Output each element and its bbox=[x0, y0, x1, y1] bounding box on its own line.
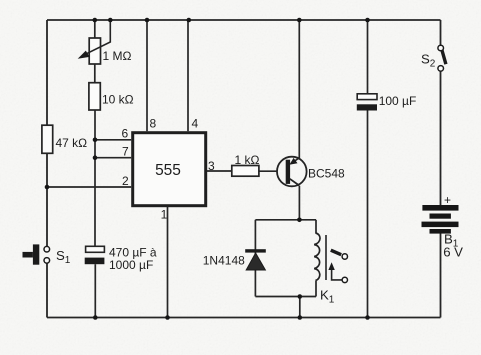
label: BC548 bbox=[308, 167, 345, 181]
label: K1 bbox=[320, 288, 335, 306]
label: S1 bbox=[56, 248, 71, 266]
wire: pin 3 (IC to 1k) bbox=[207, 170, 232, 172]
wire: transistor collector to top rail bbox=[298, 20, 300, 158]
node: junction 100uF bottom rail bbox=[365, 315, 370, 320]
wire: relay loop top bbox=[255, 219, 316, 221]
node: junction emitter relay top bbox=[297, 218, 302, 223]
potentiometer P1 body bbox=[89, 38, 100, 64]
label: pin 8 bbox=[149, 117, 156, 131]
svg-text:8: 8 bbox=[149, 117, 156, 131]
label: B1 bbox=[444, 232, 459, 250]
wire: bottom 0V rail bbox=[47, 317, 441, 319]
relay K1 coil bbox=[314, 233, 320, 281]
label: pin 7 bbox=[122, 145, 129, 159]
switch S1 (pushbutton contacts) bbox=[44, 246, 50, 263]
wire: relay bottom to 0V rail bbox=[299, 297, 301, 318]
label: pin 6 bbox=[121, 127, 128, 141]
node: junction pin6 bbox=[93, 138, 98, 143]
label: S2 bbox=[421, 52, 436, 70]
resistor R2 10 kΩ body bbox=[89, 83, 100, 110]
node: junction collector top bbox=[297, 18, 302, 23]
node: junction pin7 bbox=[93, 155, 98, 160]
wire: relay coil branch top bbox=[315, 220, 317, 233]
relay K1 contact (fixed circle with actuation arrow) bbox=[328, 262, 347, 282]
wire: left rail (upper segment to 47k) bbox=[46, 20, 48, 125]
battery B1 plates bbox=[422, 205, 459, 234]
svg-text:47 kΩ: 47 kΩ bbox=[56, 136, 88, 150]
node: junction relay bottom bbox=[298, 294, 303, 299]
wire: right rail top (to S2) bbox=[440, 20, 442, 46]
node: junction wiper top bbox=[108, 18, 113, 23]
wire: top +V rail bbox=[47, 19, 441, 21]
wire: left rail (S1 to bottom rail) bbox=[46, 263, 48, 318]
svg-text:555: 555 bbox=[155, 162, 181, 179]
svg-text:1 kΩ: 1 kΩ bbox=[235, 153, 260, 167]
label: 6 V bbox=[443, 245, 463, 260]
node: junction relay bottom rail bbox=[298, 315, 303, 320]
wire: relay coil branch bottom bbox=[315, 281, 317, 297]
capacitor C2 100 µF bbox=[357, 94, 377, 111]
label: pin 3 bbox=[208, 159, 215, 173]
label: 47 kΩ bbox=[56, 136, 88, 150]
transistor Q1 BC548 bbox=[277, 157, 307, 187]
wire: transistor emitter to relay bbox=[298, 186, 300, 220]
node: junction pin2 left rail bbox=[45, 185, 50, 190]
capacitor C1 470 µF bbox=[85, 246, 105, 264]
label: 1 MΩ bbox=[103, 49, 132, 63]
wire: relay loop bottom bbox=[255, 296, 316, 298]
wire: potentiometer to 10k bbox=[94, 64, 96, 83]
svg-text:6 V: 6 V bbox=[443, 245, 463, 260]
svg-text:1000 µF: 1000 µF bbox=[109, 258, 153, 272]
resistor R1 47 kΩ body bbox=[42, 125, 53, 153]
wire: pin 2 (from left rail to IC) bbox=[47, 186, 131, 188]
svg-text:1: 1 bbox=[161, 208, 168, 222]
svg-text:1N4148: 1N4148 bbox=[203, 253, 245, 267]
label: 100 µF bbox=[379, 94, 417, 108]
svg-text:4: 4 bbox=[191, 117, 198, 131]
node: junction 100uF top bbox=[365, 18, 370, 23]
label: pin 4 bbox=[191, 117, 198, 131]
svg-text:3: 3 bbox=[208, 159, 215, 173]
label: 10 kΩ bbox=[102, 93, 134, 107]
label: pin 1 bbox=[161, 208, 168, 222]
svg-text:2: 2 bbox=[122, 174, 129, 188]
wire: relay loop left (diode branch) bbox=[254, 220, 256, 297]
resistor R3 1 kΩ body bbox=[232, 166, 259, 177]
label: pin 2 bbox=[122, 174, 129, 188]
label: 470 µF à bbox=[109, 245, 157, 259]
node: junction pin1 bottom rail bbox=[165, 315, 170, 320]
wire: 100uF to bottom rail bbox=[367, 111, 369, 318]
svg-text:+: + bbox=[444, 193, 451, 207]
label: 1000 µF bbox=[109, 258, 153, 272]
label: + (battery positive) bbox=[444, 193, 451, 207]
wire: 1k to transistor base bbox=[259, 170, 277, 172]
IC U1 555 body bbox=[133, 133, 206, 206]
node: junction pin8 top bbox=[145, 18, 150, 23]
switch S2 bbox=[438, 45, 446, 71]
wire: 470uF to bottom rail bbox=[94, 264, 96, 317]
relay K1 contact (moving blade and circle) bbox=[331, 250, 348, 259]
node: junction 470uF bottom rail bbox=[93, 315, 98, 320]
node: junction pin4 top bbox=[187, 18, 192, 23]
node: junction pot top bbox=[93, 18, 98, 23]
wire: middle rail top (rail to potentiometer) bbox=[94, 20, 96, 38]
diode D1 1N4148 bbox=[245, 249, 266, 270]
svg-text:1 MΩ: 1 MΩ bbox=[103, 49, 132, 63]
wire: pin 6 bbox=[95, 139, 131, 141]
label: 1N4148 bbox=[203, 253, 245, 267]
wire: 100uF rail top bbox=[367, 20, 369, 94]
wire: pin 1 (IC to bottom rail) bbox=[167, 207, 169, 318]
svg-text:6: 6 bbox=[121, 127, 128, 141]
wire: 10k down to pin6/pin7 junctions and 470uF bbox=[94, 110, 96, 246]
svg-text:100 µF: 100 µF bbox=[379, 94, 417, 108]
wire: left rail (47k to S1) bbox=[46, 153, 48, 246]
wire: right rail (S2 to battery) bbox=[440, 71, 442, 205]
wire: pin 4 bbox=[187, 20, 189, 131]
wire: pin 8 bbox=[146, 20, 148, 131]
relay K1 core bar bbox=[325, 235, 327, 280]
wire: right rail (battery to bottom rail) bbox=[440, 234, 442, 318]
switch S1 actuator bbox=[23, 244, 40, 264]
svg-text:7: 7 bbox=[122, 145, 129, 159]
svg-text:10 kΩ: 10 kΩ bbox=[102, 93, 134, 107]
label: 555 bbox=[155, 162, 181, 179]
svg-text:BC548: BC548 bbox=[308, 167, 345, 181]
label: 1 kΩ bbox=[235, 153, 260, 167]
wire: pin 7 bbox=[95, 157, 131, 159]
potentiometer P1 wiper arrow bbox=[78, 20, 111, 59]
